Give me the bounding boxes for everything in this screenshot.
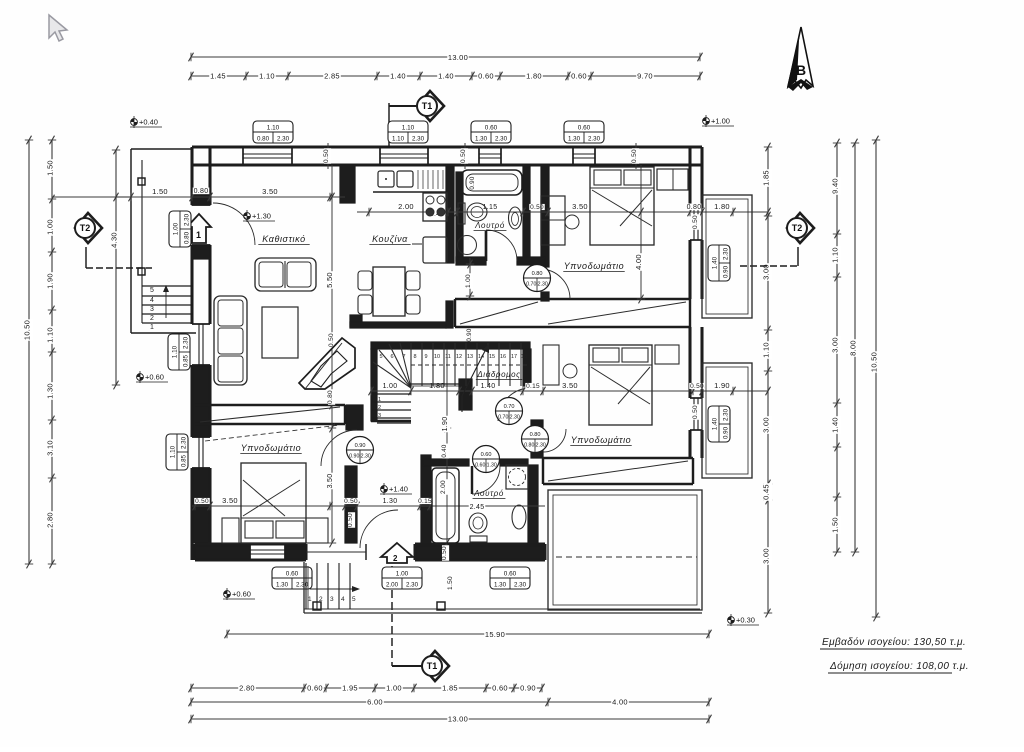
bedroom1 stool [565,215,579,229]
svg-text:9.40: 9.40 [831,178,840,194]
bottom wall solid fill left [195,546,250,559]
svg-text:0.70|2.30: 0.70|2.30 [498,415,520,421]
svg-text:10.50: 10.50 [23,320,32,340]
bedroom2 stool [563,364,577,378]
svg-text:1.30: 1.30 [276,581,289,588]
window W2 top (kitchen) [379,147,381,165]
dim box top W3 [471,121,511,143]
svg-text:5: 5 [150,287,154,294]
svg-text:1.40: 1.40 [831,417,840,433]
svg-text:1.10: 1.10 [46,327,55,343]
level +0.60 bottom [223,588,255,600]
svg-text:13.00: 13.00 [448,715,468,724]
svg-text:0.60: 0.60 [571,72,587,81]
svg-text:1.10: 1.10 [392,135,405,142]
annex post mid [138,268,145,275]
svg-text:3.50: 3.50 [562,381,578,390]
left wall solid segment above bedroom3 window [193,366,209,437]
dining table [373,267,405,316]
kitchen sink [378,171,394,187]
circle marker hall door [496,398,523,425]
bottom dimension 6.00 / 4.00 [191,701,709,703]
svg-text:0.80: 0.80 [687,204,702,211]
svg-text:0.60: 0.60 [307,684,323,693]
vertical dim line x641 bedroom1 [640,165,642,299]
level +0.40 [130,116,162,128]
svg-text:1: 1 [196,230,201,240]
terrace dashed line [556,556,697,558]
svg-text:12: 12 [456,354,462,360]
bedroom1 left wall [541,165,549,267]
svg-text:6: 6 [390,354,393,360]
window W3 top (bath) [478,147,480,165]
wall band bedrooms 1/2 divider [455,298,690,300]
svg-text:1.50: 1.50 [447,576,454,590]
svg-text:2.30: 2.30 [412,135,425,142]
svg-text:0.60: 0.60 [481,452,492,458]
stair direction arrow [462,349,486,412]
svg-text:Δόμηση ισογείου: 108,00 τ.μ.: Δόμηση ισογείου: 108,00 τ.μ. [829,660,969,672]
svg-text:4.00: 4.00 [612,698,628,707]
vertical dim x470 below bath1 [469,258,471,300]
svg-text:0.60: 0.60 [492,684,508,693]
svg-text:1: 1 [308,596,312,603]
svg-text:0.90: 0.90 [520,684,536,693]
stair lower flight treads [372,393,411,395]
balcony 2 right [702,363,752,478]
svg-text:1.85: 1.85 [762,170,771,186]
level +1.30 [243,210,275,222]
svg-text:0.70|2.30: 0.70|2.30 [526,282,548,288]
svg-text:0.50: 0.50 [692,215,699,229]
svg-text:0.15: 0.15 [418,498,432,505]
terrace bottom right [548,490,702,610]
svg-text:10: 10 [434,354,440,360]
porch post 1 [313,602,321,610]
level +0.30 terrace [727,614,759,626]
bedroom2 south wall band [543,457,693,459]
svg-text:1.00: 1.00 [46,219,55,235]
svg-text:1.80: 1.80 [429,381,445,390]
svg-text:0.80: 0.80 [183,231,190,244]
stairwell top wall [371,342,530,349]
right dimension line 8.00 [854,143,856,552]
svg-text:2.30: 2.30 [722,408,729,421]
kitchen lower cabinet [423,237,447,263]
svg-text:Εμβαδόν ισογείου: 130,50 τ.μ.: Εμβαδόν ισογείου: 130,50 τ.μ. [822,636,966,648]
misc rotated small dims [329,332,336,348]
svg-text:T1: T1 [427,661,438,671]
level +1.00 [702,115,734,127]
left inner dimension 4.30 [115,150,117,385]
door opening D1 in left wall [192,204,210,206]
svg-text:1.80: 1.80 [714,202,730,211]
svg-text:0.90: 0.90 [722,265,729,278]
bath1 bidet [509,207,522,229]
bath2 right wall [528,465,538,544]
section marker T2 left [75,213,102,243]
svg-text:1.00: 1.00 [173,222,180,235]
svg-text:2.00: 2.00 [440,480,447,494]
svg-text:B: B [796,62,806,78]
svg-text:3.10: 3.10 [46,440,55,456]
annex stairs [142,285,193,287]
right dimension line 9.40 etc [836,143,838,552]
svg-text:0.80: 0.80 [530,432,541,438]
svg-text:0.85: 0.85 [180,454,187,467]
svg-text:0.60: 0.60 [578,125,591,132]
svg-text:Διάδρομος: Διάδρομος [476,370,520,379]
door symbol 1 [187,214,211,243]
stair walk line dashed [411,364,528,366]
svg-text:0.50: 0.50 [195,498,209,505]
bath2 toilet [469,513,487,533]
interior wall living/kitchen pier [340,165,355,203]
bedroom1 bed [590,167,654,245]
door arc entry (door2) [360,510,398,548]
dim box bottom door2 [382,567,422,589]
bath2 bidet oval [512,505,526,529]
circle marker bedroom2 door [522,426,549,453]
svg-text:2.00: 2.00 [386,581,399,588]
top exterior wall [192,145,702,148]
svg-text:Υπνοδωμάτιο: Υπνοδωμάτιο [241,443,302,453]
svg-text:0.60: 0.60 [504,571,517,578]
svg-text:1.30: 1.30 [383,498,398,505]
svg-text:0.50: 0.50 [460,149,467,163]
svg-text:T1: T1 [422,101,433,111]
porch slab bottom [303,562,305,613]
svg-text:Υπνοδωμάτιο: Υπνοδωμάτιο [564,261,625,271]
kitchen stove [423,193,447,221]
svg-text:1.90: 1.90 [714,381,730,390]
living room sofa two-seat [255,258,316,291]
entrance steps [305,563,307,609]
bedroom2 closet [655,345,679,364]
dim box bottom W6 [490,567,530,589]
left segmented dimension line [51,140,53,564]
vertical dim x447 hall [446,349,448,560]
svg-text:0.50: 0.50 [323,149,330,163]
svg-text:0.90: 0.90 [722,426,729,439]
bottom overall dimension 13.00 [191,718,709,720]
svg-text:0.60: 0.60 [478,72,494,81]
kitchen counter [373,191,446,193]
svg-text:0.70: 0.70 [504,404,515,410]
bottom segmented dimension line [191,687,542,689]
svg-text:0.90|2.30: 0.90|2.30 [349,454,371,460]
bedroom2 west wall [523,349,531,386]
svg-text:+0.40: +0.40 [139,118,158,127]
dim box bottom W5 [272,567,312,589]
svg-text:4: 4 [150,297,154,304]
kitchen drainer hatch [417,170,419,189]
svg-text:T2: T2 [792,223,803,233]
svg-text:1.90: 1.90 [442,417,449,432]
interior dim string y197 living [52,196,345,198]
svg-text:+1.30: +1.30 [252,212,271,221]
coffee table [262,307,298,358]
dim box balcony2 window [708,406,730,442]
svg-text:Λουτρό: Λουτρό [474,221,505,230]
door1 arc from porch [213,203,255,245]
svg-text:Καθιστικό: Καθιστικό [262,234,306,244]
svg-text:1.10: 1.10 [172,345,179,358]
bath1 toilet [458,203,465,224]
svg-text:2: 2 [319,596,323,603]
window bottom bedroom3 [249,544,251,560]
svg-text:4: 4 [341,596,345,603]
bedroom3 nightstand L [222,518,239,543]
top overall dimension line 13.00 [191,56,700,58]
right overall dimension 10.50 [875,140,877,617]
svg-text:1.30: 1.30 [46,383,55,399]
window left living [192,323,210,325]
svg-text:2.30: 2.30 [588,135,601,142]
kitchen right wall [446,165,454,263]
north arrow B [788,27,813,88]
svg-text:3.00: 3.00 [831,337,840,353]
bedroom3 diagonal closet line [205,425,340,441]
door1 jamb piers [192,192,210,205]
door leaf + arc bath1 [485,231,488,261]
svg-text:0.80: 0.80 [257,135,270,142]
svg-text:3.00: 3.00 [762,417,771,433]
svg-text:2.30: 2.30 [495,135,508,142]
bath2 vertical 2.00 [441,479,448,495]
svg-text:1.95: 1.95 [342,684,358,693]
bedroom3 nightstand R [306,518,328,543]
svg-text:3: 3 [150,306,154,313]
svg-text:1.00: 1.00 [386,684,402,693]
svg-text:1.30: 1.30 [568,135,581,142]
svg-text:1.80: 1.80 [526,72,542,81]
svg-text:5: 5 [352,596,356,603]
bedroom3 east wall [345,466,357,543]
diagonal in divider band [200,407,340,422]
svg-text:2.30: 2.30 [180,436,187,449]
bath2 washbasin stand [506,465,528,489]
bedroom1 wardrobe left [541,196,565,245]
corner fireplace [299,338,355,389]
bottom dimension 15.90 [227,633,709,635]
bath2 door leaf + arc [471,466,473,494]
svg-text:9.70: 9.70 [637,72,653,81]
window W1 top (living) [242,147,244,165]
dim box left window living [168,334,190,370]
dim box door1 [169,211,191,247]
svg-text:1.40: 1.40 [712,256,719,269]
svg-text:1.40: 1.40 [390,72,406,81]
section marker T2 right [787,213,814,243]
circle marker bath2 window [473,446,500,473]
svg-text:15.90: 15.90 [485,630,505,639]
svg-text:2.30: 2.30 [182,336,189,349]
svg-text:0.90: 0.90 [466,328,473,342]
bath1 bottom wall [456,257,486,265]
svg-text:0.80|2.30: 0.80|2.30 [524,443,546,449]
bottom exterior wall right part [415,542,545,545]
svg-text:0.50: 0.50 [530,204,544,211]
bedroom2 bed [589,345,652,425]
right exterior wall [688,147,691,208]
corridor north wall (kitchen south) [350,315,362,327]
svg-text:1.85: 1.85 [442,684,458,693]
svg-text:0.45: 0.45 [762,484,771,500]
dim string y506 bedroom3/bath2 [192,505,545,507]
svg-text:2.85: 2.85 [324,72,340,81]
annex dimension 1.50 [131,196,192,198]
svg-text:1.50: 1.50 [831,517,840,533]
corridor door pier [459,379,472,410]
dim string y391 corridor/bedroom2 [371,390,768,392]
svg-text:1.10: 1.10 [402,125,415,132]
stair winder radials [373,362,411,388]
living room sofa L three-seat [214,296,247,385]
svg-text:4.30: 4.30 [110,232,119,248]
svg-text:1.50: 1.50 [152,187,168,196]
window right bedroom2 [690,397,702,399]
svg-text:1.00: 1.00 [465,274,472,288]
svg-text:0.15: 0.15 [526,383,540,390]
svg-text:3.50: 3.50 [572,202,588,211]
svg-text:1.10: 1.10 [267,125,280,132]
svg-text:2: 2 [150,315,154,322]
right dimension line near building [767,147,769,613]
svg-text:2: 2 [393,554,398,563]
entry threshold [365,544,367,560]
svg-text:6.00: 6.00 [367,698,383,707]
window left bedroom3 [192,436,210,438]
svg-text:1.90: 1.90 [46,273,55,289]
svg-text:0.80: 0.80 [194,188,209,195]
svg-text:0.40: 0.40 [441,444,448,458]
svg-text:3.50: 3.50 [262,187,278,196]
svg-text:3.50: 3.50 [327,474,334,489]
annex post top [138,178,145,185]
stairwell left wall [371,349,377,421]
svg-text:0.50: 0.50 [328,333,335,347]
diagonal beam marks in band [460,302,538,324]
svg-text:3.50: 3.50 [222,496,238,505]
svg-text:+0.60: +0.60 [232,590,251,599]
svg-text:8: 8 [413,354,416,360]
circle marker bath1 door [524,265,551,292]
left wall solid segment below bedroom3 window [193,468,209,543]
svg-text:5: 5 [379,354,382,360]
svg-text:0.85: 0.85 [182,354,189,367]
svg-text:0.60|1.30: 0.60|1.30 [475,463,497,469]
svg-text:Υπνοδωμάτιο: Υπνοδωμάτιο [571,435,632,445]
svg-text:1.10: 1.10 [762,342,771,358]
svg-text:1.00: 1.00 [396,571,409,578]
svg-text:Λουτρό: Λουτρό [473,489,504,498]
svg-text:0.90: 0.90 [469,176,476,190]
svg-text:1.00: 1.00 [383,383,398,390]
svg-text:2.45: 2.45 [470,504,485,511]
level +0.60 left [136,371,168,383]
svg-text:2: 2 [378,405,381,411]
window right bedroom1 [690,207,702,209]
dining chairs [358,271,372,290]
svg-text:16: 16 [500,354,506,360]
interior dim string y212 kitchen/bath/bed1 [357,211,768,213]
svg-text:1.40: 1.40 [438,72,454,81]
svg-text:2.30: 2.30 [183,213,190,226]
door arc bedroom2 east [543,429,566,452]
level +1.40 hall [380,483,412,495]
svg-text:T2: T2 [80,223,91,233]
svg-text:1.15: 1.15 [483,204,498,211]
window W4 top (bedroom1) [572,147,574,165]
svg-text:9: 9 [424,354,427,360]
svg-text:2.30: 2.30 [722,247,729,260]
svg-text:0.50: 0.50 [344,498,358,505]
svg-text:1.30: 1.30 [475,135,488,142]
hall / bath2 west wall [421,455,431,544]
svg-text:0.80: 0.80 [327,390,334,404]
svg-text:0.80: 0.80 [532,271,543,277]
section marker T1 top [388,103,390,146]
svg-text:+1.40: +1.40 [389,485,408,494]
svg-text:1.10: 1.10 [170,445,177,458]
bedroom3 bed [241,463,306,543]
bath1 washbasin [458,236,477,255]
wall thickness ticks 0.50 top [327,143,329,169]
bath2 top wall [423,459,469,466]
bath1 right wall [523,165,530,261]
door arc bedroom2 [498,388,531,421]
cursor arrow icon [49,15,67,41]
svg-text:7: 7 [402,354,405,360]
svg-text:13.00: 13.00 [448,53,468,62]
svg-text:2.00: 2.00 [398,202,414,211]
svg-text:1: 1 [150,324,154,331]
dim box left window bed3 [166,434,188,470]
left overall dimension line 10.50 [28,140,30,564]
svg-text:15: 15 [489,354,495,360]
bath1 left wall [456,172,463,261]
porch post 2 [437,602,445,610]
svg-text:+0.60: +0.60 [145,373,164,382]
door symbol 2 (entry) [381,543,413,563]
svg-text:0.50: 0.50 [347,513,354,527]
annex outline [131,148,192,150]
svg-text:4.00: 4.00 [634,254,643,270]
svg-text:1.45: 1.45 [210,72,226,81]
svg-text:0.50: 0.50 [692,405,699,419]
vertical dim line x332 living [331,165,333,543]
svg-text:3: 3 [330,596,334,603]
svg-text:3.00: 3.00 [762,548,771,564]
svg-text:1.10: 1.10 [259,72,275,81]
bedroom1 closet top [657,169,688,190]
svg-text:1.30: 1.30 [494,581,507,588]
balcony 1 right [702,195,752,318]
svg-text:18: 18 [521,354,527,360]
svg-text:1.50: 1.50 [46,160,55,176]
svg-text:2.30: 2.30 [277,135,290,142]
bedroom2 desk [543,345,559,385]
living/bedroom3 divider band [195,404,345,406]
svg-text:Κουζίνα: Κουζίνα [372,234,408,244]
svg-text:2.30: 2.30 [296,581,309,588]
svg-text:2.30: 2.30 [406,581,419,588]
dim box balcony1 window [708,245,730,281]
top segmented dimension line [191,75,700,77]
svg-text:10.50: 10.50 [870,352,879,372]
stair upper flight treads [410,343,412,386]
